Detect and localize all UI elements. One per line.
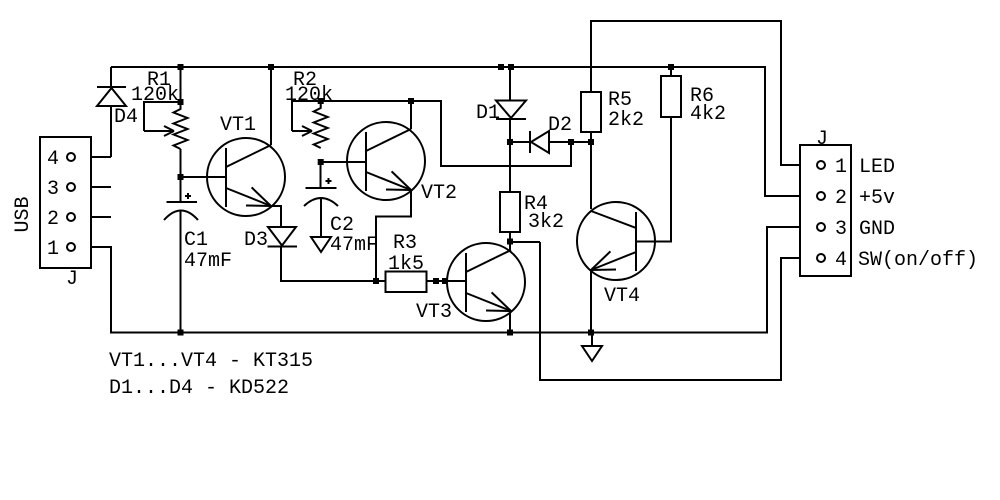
svg-text:2: 2 [835, 187, 847, 210]
svg-text:D3: D3 [244, 229, 268, 252]
svg-text:VT1: VT1 [220, 114, 256, 137]
svg-text:LED: LED [859, 156, 895, 179]
svg-text:GND: GND [859, 218, 895, 241]
svg-text:47mF: 47mF [184, 250, 232, 273]
svg-text:VT4: VT4 [604, 285, 640, 308]
svg-text:3k2: 3k2 [528, 211, 564, 234]
svg-text:3: 3 [47, 178, 59, 201]
svg-text:47mF: 47mF [330, 234, 378, 257]
svg-text:SW(on/off): SW(on/off) [858, 249, 978, 272]
svg-text:D1...D4 - KD522: D1...D4 - KD522 [109, 377, 289, 400]
svg-text:120k: 120k [131, 84, 179, 107]
svg-text:120k: 120k [285, 84, 333, 107]
svg-text:4: 4 [835, 249, 847, 272]
svg-text:4: 4 [47, 148, 59, 171]
svg-text:VT1...VT4 - KT315: VT1...VT4 - KT315 [109, 350, 313, 373]
svg-text:D4: D4 [114, 106, 138, 129]
svg-text:2: 2 [47, 208, 59, 231]
svg-text:VT3: VT3 [416, 301, 452, 324]
svg-text:C1: C1 [184, 229, 208, 252]
svg-text:1k5: 1k5 [388, 253, 424, 276]
svg-text:4k2: 4k2 [690, 103, 726, 126]
svg-text:D1: D1 [476, 102, 500, 125]
svg-text:D2: D2 [548, 114, 572, 137]
svg-text:1: 1 [47, 238, 59, 261]
svg-text:VT2: VT2 [421, 182, 457, 205]
svg-text:USB: USB [12, 196, 35, 232]
svg-text:+5v: +5v [859, 187, 895, 210]
svg-text:2k2: 2k2 [608, 109, 644, 132]
svg-text:J: J [66, 268, 78, 291]
svg-text:3: 3 [835, 218, 847, 241]
svg-text:R3: R3 [393, 232, 417, 255]
svg-text:J: J [816, 128, 828, 151]
svg-text:1: 1 [835, 156, 847, 179]
